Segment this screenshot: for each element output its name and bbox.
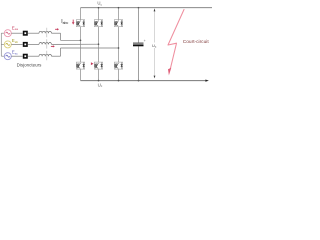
svg-text:Esa: Esa (12, 25, 18, 31)
svg-text:Uc: Uc (152, 43, 157, 49)
svg-text:Uc: Uc (97, 1, 102, 7)
svg-text:Uc: Uc (98, 82, 103, 88)
svg-text:Esb: Esb (12, 38, 18, 44)
svg-text:Disjoncteurs: Disjoncteurs (17, 62, 43, 67)
svg-text:+: + (144, 39, 146, 43)
svg-text:Esc: Esc (12, 50, 18, 56)
svg-text:Court-circuit: Court-circuit (183, 39, 210, 45)
svg-text:Iabc: Iabc (61, 19, 68, 25)
